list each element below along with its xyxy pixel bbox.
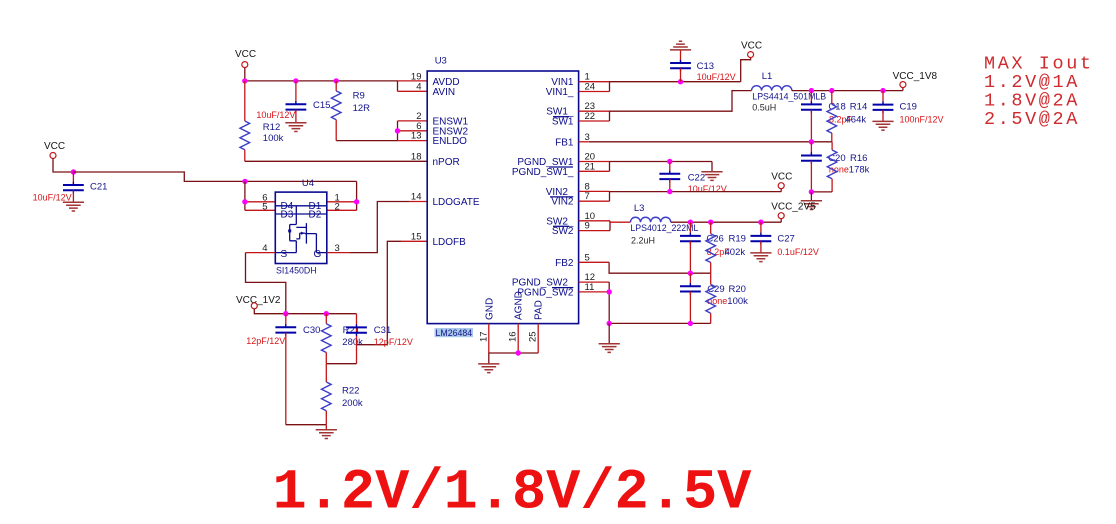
U3 pin 5 stub FB2 bbox=[579, 261, 610, 263]
svg-text:D2: D2 bbox=[309, 209, 322, 220]
svg-text:FB2: FB2 bbox=[555, 258, 574, 269]
wire to VCC_2V5 flag bbox=[780, 219, 782, 223]
power flag VCC_1V2 bbox=[236, 295, 281, 309]
node C13 bbox=[678, 79, 683, 84]
wire L1 output net bbox=[792, 90, 903, 92]
wire to ground stub bbox=[325, 425, 327, 430]
svg-text:G: G bbox=[314, 249, 322, 260]
svg-text:200k: 200k bbox=[342, 398, 363, 409]
svg-text:PAD: PAD bbox=[534, 300, 545, 320]
capacitor C22 bbox=[659, 162, 726, 195]
wire FB2 net bbox=[609, 262, 711, 273]
svg-text:15: 15 bbox=[411, 231, 422, 242]
ground (C13, inverted) bbox=[670, 41, 691, 50]
svg-text:280k: 280k bbox=[342, 337, 363, 348]
wire pin2/6/13 connector bbox=[397, 121, 399, 141]
svg-text:AGND: AGND bbox=[514, 291, 525, 320]
ground (C20/R16) bbox=[801, 201, 822, 210]
wire VCC top rail bbox=[244, 68, 246, 81]
svg-text:10uF/12V: 10uF/12V bbox=[256, 110, 295, 120]
node U4 net junction bbox=[242, 179, 247, 184]
svg-text:R22: R22 bbox=[342, 386, 359, 397]
wire SW2 to L3 bbox=[610, 221, 630, 223]
U4 pin 4 stub bbox=[246, 252, 276, 254]
node R19 top bbox=[708, 220, 713, 225]
capacitor C31 bbox=[346, 314, 413, 364]
wire C21 junction to U4/nPOR net bbox=[73, 172, 356, 181]
node C26 top bbox=[688, 220, 693, 225]
wire pin1/24 connector bbox=[609, 82, 611, 92]
U3 pin 24 stub bbox=[579, 91, 610, 93]
svg-text:C30: C30 bbox=[303, 325, 320, 336]
pin 2 stub bbox=[398, 120, 428, 122]
svg-text:12pF/12V: 12pF/12V bbox=[374, 337, 413, 347]
svg-text:1.2V/1.8V/2.5V: 1.2V/1.8V/2.5V bbox=[273, 462, 753, 524]
svg-text:VCC: VCC bbox=[771, 172, 792, 183]
capacitor C19 bbox=[873, 91, 944, 125]
U3 pin 7 stub bbox=[579, 200, 610, 202]
resistor R16 bbox=[827, 142, 869, 192]
node pin 11 bbox=[607, 289, 612, 294]
node C22 top bbox=[667, 159, 672, 164]
svg-text:100k: 100k bbox=[727, 296, 748, 307]
wire SW1 to L1 bbox=[610, 91, 752, 112]
power flag VCC (top) bbox=[235, 49, 256, 68]
wire U4 left vertical bbox=[244, 181, 246, 210]
pin 4 stub bbox=[398, 90, 428, 92]
svg-text:100nF/12V: 100nF/12V bbox=[900, 115, 944, 125]
svg-text:ENLDO: ENLDO bbox=[433, 136, 468, 147]
wire U4 pin4 to VCC_1V2 net bbox=[246, 253, 286, 314]
wire R21 bottom to C31 bbox=[326, 363, 356, 365]
node C18 top bbox=[809, 88, 814, 93]
node VCC/C15 bbox=[293, 78, 298, 83]
wire VCC_1V2 rail bbox=[254, 309, 356, 314]
transistor U4 internal symbol bbox=[275, 206, 327, 253]
U3 pin 11 stub bbox=[579, 291, 610, 293]
svg-text:4: 4 bbox=[416, 81, 421, 92]
svg-text:FB1: FB1 bbox=[555, 137, 574, 148]
svg-text:none: none bbox=[707, 296, 727, 306]
op-amp U3 LM26484 body bbox=[427, 56, 578, 324]
svg-text:VCC_1V2: VCC_1V2 bbox=[236, 295, 281, 306]
U4 pin 3 stub bbox=[327, 252, 350, 254]
U3 pin 23 stub bbox=[579, 110, 610, 112]
node U4 pin1 bbox=[354, 199, 359, 204]
resistor R19 bbox=[706, 222, 746, 273]
U3 pin 25 stub bbox=[537, 324, 539, 353]
svg-text:C27: C27 bbox=[777, 233, 794, 244]
svg-text:C21: C21 bbox=[90, 182, 107, 193]
svg-text:VIN2: VIN2 bbox=[551, 197, 574, 208]
U3 pin 9 stub bbox=[579, 230, 610, 232]
node VCC/R12 bbox=[242, 78, 247, 83]
power flag VCC_1V8 bbox=[893, 71, 938, 87]
U3 left pin numbers bbox=[411, 72, 422, 243]
svg-text:S: S bbox=[281, 249, 288, 260]
U3 pin 16 stub bbox=[517, 324, 519, 353]
svg-text:17: 17 bbox=[478, 331, 489, 342]
pin 13 stub bbox=[398, 140, 428, 142]
capacitor C30 bbox=[246, 314, 320, 425]
power flag VCC (left) bbox=[44, 141, 65, 159]
node C29 bottom bbox=[688, 321, 693, 326]
svg-text:100k: 100k bbox=[263, 133, 284, 144]
power flag VCC_2V5 bbox=[771, 202, 816, 219]
resistor R12 bbox=[240, 81, 284, 161]
svg-text:LDOFB: LDOFB bbox=[433, 237, 467, 248]
wire U4 pin3 to LDOGATE bbox=[350, 202, 409, 253]
U4 pin 1 stub bbox=[327, 201, 357, 203]
node ENSW2 junction bbox=[395, 128, 400, 133]
capacitor C26 bbox=[680, 222, 730, 273]
svg-text:14: 14 bbox=[411, 192, 422, 203]
svg-text:R12: R12 bbox=[263, 122, 280, 133]
svg-text:10uF/12V: 10uF/12V bbox=[688, 184, 727, 194]
capacitor C13 bbox=[670, 50, 736, 82]
ground (PGND_SW2) bbox=[599, 344, 620, 353]
svg-text:C31: C31 bbox=[374, 325, 391, 336]
resistor R14 bbox=[827, 91, 867, 142]
note MAX Iout table bbox=[984, 54, 1094, 131]
wire pin23/22 connector bbox=[609, 111, 611, 121]
resistor R22 bbox=[321, 364, 362, 425]
U3 pin 12 stub bbox=[579, 281, 610, 283]
node PGND junction bbox=[607, 321, 612, 326]
svg-text:nPOR: nPOR bbox=[433, 157, 460, 168]
wire pin8/7 connector bbox=[609, 191, 611, 201]
U3 pin 3 stub FB1 bbox=[579, 141, 589, 143]
svg-text:2: 2 bbox=[335, 202, 340, 213]
pin 15 stub bbox=[401, 240, 427, 242]
transistor U4 SI1450DH body bbox=[262, 178, 340, 276]
part label LM26484 (highlighted) bbox=[435, 328, 474, 338]
svg-text:C13: C13 bbox=[697, 61, 714, 72]
wire LDOFB net bbox=[357, 241, 402, 344]
svg-text:AVIN: AVIN bbox=[433, 87, 456, 98]
svg-text:R16: R16 bbox=[850, 153, 867, 164]
svg-text:2.2uH: 2.2uH bbox=[631, 236, 655, 246]
U3 pin 1 stub bbox=[579, 81, 610, 83]
svg-text:SI1450DH: SI1450DH bbox=[276, 266, 317, 276]
ground (C21) bbox=[63, 202, 84, 211]
ground (C19) bbox=[872, 121, 893, 130]
pin 6 stub bbox=[398, 130, 428, 132]
node VCC/R9 bbox=[334, 78, 339, 83]
svg-text:10uF/12V: 10uF/12V bbox=[697, 72, 736, 82]
U4 pin 6 stub bbox=[245, 201, 275, 203]
ground (C15) bbox=[285, 123, 306, 132]
wire pin12/11 to ground rail bbox=[608, 282, 610, 323]
wire to PGND ground bbox=[608, 323, 610, 343]
pin 14 stub bbox=[409, 201, 427, 203]
svg-text:R19: R19 bbox=[729, 233, 746, 244]
power flag VCC (C13 area) bbox=[741, 41, 762, 58]
node junction VCC/C21 bbox=[71, 169, 76, 174]
U3 left pin names bbox=[433, 77, 480, 248]
wire pin20/21 connector bbox=[609, 162, 611, 172]
node C22 bottom bbox=[667, 189, 672, 194]
wire VIN1 to VCC flag bbox=[741, 58, 751, 82]
wire C30/R22 bottom rail bbox=[286, 424, 327, 426]
svg-text:L1: L1 bbox=[762, 71, 773, 82]
U3 right pin numbers bbox=[585, 72, 596, 293]
node C19/VCC_1V8 bbox=[880, 88, 885, 93]
wire to U3 ground bbox=[488, 353, 490, 364]
svg-text:L3: L3 bbox=[634, 203, 645, 214]
wire L3 output net bbox=[671, 221, 781, 223]
svg-text:SW1: SW1 bbox=[552, 117, 574, 128]
resistor R21 bbox=[321, 314, 363, 364]
wire to VCC flag right bbox=[780, 189, 782, 192]
ground (PGND_SW1) bbox=[701, 172, 722, 181]
wire to VCC_1V8 flag bbox=[902, 88, 904, 91]
svg-text:VCC: VCC bbox=[741, 41, 762, 52]
svg-text:178k: 178k bbox=[849, 165, 870, 176]
wire to C22 ground bbox=[711, 162, 713, 172]
svg-text:C15: C15 bbox=[313, 100, 330, 111]
node pin16 junction bbox=[516, 350, 521, 355]
ground (R22/C30) bbox=[316, 430, 337, 439]
power flag VCC (right) bbox=[771, 172, 792, 189]
svg-text:U4: U4 bbox=[302, 178, 314, 189]
svg-text:464k: 464k bbox=[846, 114, 867, 125]
U3 right pin names bbox=[512, 77, 574, 298]
svg-text:LPS4012_222ML: LPS4012_222ML bbox=[630, 223, 698, 233]
svg-text:VCC: VCC bbox=[44, 141, 65, 152]
capacitor C20 bbox=[801, 142, 849, 192]
wire R12 to nPOR pin 18 bbox=[245, 160, 427, 162]
svg-text:5: 5 bbox=[262, 202, 267, 213]
wire to C20 ground bbox=[810, 192, 812, 201]
wire R9 to ENLDO bbox=[336, 140, 397, 142]
capacitor C18 bbox=[801, 91, 853, 142]
svg-text:R20: R20 bbox=[729, 284, 746, 295]
capacitor C21 bbox=[33, 172, 108, 202]
wire U4 right vertical bbox=[356, 181, 358, 210]
ground (C27) bbox=[750, 253, 771, 262]
wire GND rail under U3 bbox=[489, 352, 538, 354]
svg-text:12R: 12R bbox=[353, 103, 371, 114]
wire PGND_SW2 bottom rail bbox=[609, 322, 711, 324]
U3 pin 20 stub bbox=[579, 161, 610, 163]
capacitor C15 bbox=[256, 81, 330, 123]
wire PGND_SW1 net bbox=[610, 161, 713, 163]
inductor L1 bbox=[752, 71, 827, 113]
svg-text:18: 18 bbox=[411, 151, 422, 162]
svg-text:LPS4414_501MLB: LPS4414_501MLB bbox=[752, 91, 826, 101]
U3 bottom pin names GND AGND PAD bbox=[484, 291, 544, 320]
node C20 bottom bbox=[809, 189, 814, 194]
svg-text:402k: 402k bbox=[725, 247, 746, 258]
svg-text:C22: C22 bbox=[688, 173, 705, 184]
svg-text:PGND_SW2: PGND_SW2 bbox=[517, 287, 574, 298]
U3 pin 22 stub bbox=[579, 120, 610, 122]
svg-text:25: 25 bbox=[528, 331, 539, 342]
svg-text:LM26484: LM26484 bbox=[436, 328, 473, 338]
node C30 top bbox=[283, 311, 288, 316]
svg-text:16: 16 bbox=[508, 331, 519, 342]
U4 pin 5 stub bbox=[245, 209, 275, 211]
U3 pin 17 stub bbox=[488, 324, 490, 353]
svg-text:SW2: SW2 bbox=[552, 226, 574, 237]
inductor L3 bbox=[630, 203, 698, 246]
svg-text:GND: GND bbox=[484, 298, 495, 320]
resistor R20 bbox=[706, 273, 748, 323]
svg-text:VCC_1V8: VCC_1V8 bbox=[893, 71, 938, 82]
U3 pin 21 stub bbox=[579, 170, 610, 172]
svg-text:D3: D3 bbox=[281, 209, 294, 220]
resistor R9 bbox=[331, 81, 370, 141]
svg-text:R14: R14 bbox=[850, 101, 867, 112]
node C27 top bbox=[758, 220, 763, 225]
svg-text:C19: C19 bbox=[900, 101, 917, 112]
node FB1/C18 bbox=[809, 139, 814, 144]
node U4 pin6 bbox=[242, 199, 247, 204]
wire R16 bottom to C20 bbox=[811, 191, 832, 193]
wire pin19/pin4 connector bbox=[397, 81, 399, 91]
wire VIN2 net bbox=[610, 191, 782, 193]
svg-text:R9: R9 bbox=[353, 91, 365, 102]
svg-text:U3: U3 bbox=[435, 56, 447, 67]
svg-text:VCC_2V5: VCC_2V5 bbox=[771, 202, 816, 213]
svg-text:13: 13 bbox=[411, 131, 422, 142]
U4 pin 2 stub bbox=[327, 209, 357, 211]
wire FB1 net bbox=[589, 141, 832, 143]
svg-text:10uF/12V: 10uF/12V bbox=[33, 192, 72, 202]
ground (U3 GND) bbox=[478, 364, 499, 373]
U3 pin 8 stub bbox=[579, 190, 610, 192]
capacitor C27 bbox=[751, 222, 819, 257]
svg-text:LDOGATE: LDOGATE bbox=[433, 197, 480, 208]
svg-text:VCC: VCC bbox=[235, 49, 256, 60]
U3 bottom pin numbers 17 16 25 bbox=[478, 331, 538, 342]
svg-text:12pF/12V: 12pF/12V bbox=[246, 336, 285, 346]
svg-text:2.5V@2A: 2.5V@2A bbox=[984, 109, 1080, 130]
svg-text:0.1uF/12V: 0.1uF/12V bbox=[777, 247, 819, 257]
pin 19 stub bbox=[398, 80, 428, 82]
wire pin10/9 connector bbox=[609, 221, 611, 231]
node R14 top bbox=[829, 88, 834, 93]
wire VIN1 net bbox=[610, 81, 741, 83]
node C29 top bbox=[688, 271, 693, 276]
capacitor C29 bbox=[680, 273, 727, 323]
U3 pin 10 stub bbox=[579, 220, 610, 222]
svg-text:PGND_SW1_: PGND_SW1_ bbox=[512, 167, 574, 178]
svg-text:0.5uH: 0.5uH bbox=[752, 103, 776, 113]
svg-text:VIN1_: VIN1_ bbox=[546, 87, 574, 98]
wire VCC to C21 junction bbox=[53, 159, 73, 173]
node R21 top bbox=[324, 311, 329, 316]
